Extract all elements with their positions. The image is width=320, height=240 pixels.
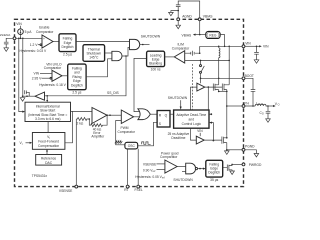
transistor Q-SSdis xyxy=(25,90,30,96)
svg-text:Hysteresis: 0.18 V: Hysteresis: 0.18 V xyxy=(39,83,67,87)
svg-text:OSC: OSC xyxy=(128,144,136,148)
buffer to SS pin (points left) xyxy=(35,92,45,100)
svg-text:+: + xyxy=(43,37,45,41)
external VBIAS bypass cap xyxy=(176,1,200,18)
svg-text:VIN: VIN xyxy=(16,22,22,26)
wire PH node xyxy=(218,91,228,136)
ground SS discharge xyxy=(20,98,25,102)
thermal shutdown box 145C xyxy=(83,45,105,62)
svg-text:145°C: 145°C xyxy=(89,56,99,60)
svg-text:PGND: PGND xyxy=(245,145,255,149)
svg-text:PWRGD: PWRGD xyxy=(249,163,262,167)
svg-text:Deadtime: Deadtime xyxy=(171,136,185,140)
wire control logic to ls driver input xyxy=(191,128,197,140)
power good comparator xyxy=(160,151,179,173)
svg-text:2 kΩ: 2 kΩ xyxy=(77,121,84,125)
wire error amp output xyxy=(106,114,121,116)
svg-text:Blanking: Blanking xyxy=(149,61,162,65)
offset source on ILIM + input xyxy=(185,46,201,55)
svg-text:Comparator: Comparator xyxy=(172,46,190,50)
svg-text:VIN: VIN xyxy=(245,41,251,45)
svg-text:100 ns: 100 ns xyxy=(151,68,161,72)
ground output cap xyxy=(266,119,271,123)
wire FSEL to OSC xyxy=(137,148,140,185)
clock waveform symbol xyxy=(142,142,151,144)
wire ramp to PWM comparator xyxy=(116,121,125,145)
svg-text:Enable: Enable xyxy=(39,26,49,30)
svg-text:VSENSE: VSENSE xyxy=(143,162,157,166)
NAND gate U-PG xyxy=(186,163,198,174)
wire SS/ENA node xyxy=(16,38,42,40)
svg-text:AGND: AGND xyxy=(182,15,192,19)
node VIN uvlo input xyxy=(34,72,53,76)
svg-text:Amplifier: Amplifier xyxy=(91,135,105,139)
label VIN ls driver supply xyxy=(197,129,203,136)
wire SS/ENA down to slow-start input xyxy=(19,38,25,112)
node VSENSE pg input xyxy=(143,162,165,166)
boot rail xyxy=(200,78,242,80)
transistor Q-HS sense xyxy=(222,46,230,91)
svg-text:Deglitch: Deglitch xyxy=(62,45,74,49)
pin PH xyxy=(242,102,249,108)
svg-text:PH: PH xyxy=(244,102,249,106)
wire OSC clock to latch S xyxy=(138,122,157,146)
wire SS_DIS to slow-start box xyxy=(46,95,48,102)
wire thermal to AND gate xyxy=(105,52,112,54)
svg-text:2.5 µs: 2.5 µs xyxy=(63,52,72,56)
node 1.2V reference xyxy=(30,43,42,47)
shutdown gate U-SD xyxy=(130,39,140,49)
dashed wire ILIM to control logic xyxy=(192,64,194,110)
pin BOOT xyxy=(242,74,254,80)
sawtooth ramp symbol xyxy=(115,141,123,144)
svg-text:Adaptive Dead-Time: Adaptive Dead-Time xyxy=(176,113,206,117)
node VI input xyxy=(20,141,33,146)
svg-text:DAC: DAC xyxy=(45,161,53,165)
ILIM comparator (points left) xyxy=(172,43,190,63)
wire shutdown gate output xyxy=(140,44,150,46)
wire slow-start to error amp xyxy=(71,110,93,112)
ground low-side internal xyxy=(225,150,230,155)
resistor 2k VSENSE xyxy=(76,118,89,126)
wire ILIM - input rail2 xyxy=(185,59,230,61)
svg-text:SS/ENA: SS/ENA xyxy=(0,33,11,37)
wire gate node to control logic sense xyxy=(207,87,209,110)
svg-text:BOOT: BOOT xyxy=(245,74,254,78)
svg-text:2.95 V: 2.95 V xyxy=(32,77,42,81)
wire slow-start to feed-forward xyxy=(47,122,49,133)
pin PGND xyxy=(242,145,255,152)
PWM comparator U-PWM xyxy=(118,110,136,134)
REG regulator box xyxy=(206,31,220,38)
svg-text:VSENSE: VSENSE xyxy=(59,189,73,193)
external PGND ground xyxy=(245,150,259,157)
wire control logic to ls gate sense xyxy=(209,122,214,142)
ground VBIAS cap xyxy=(169,11,179,16)
svg-text:VIN: VIN xyxy=(34,72,40,76)
wire deglitch2 to AND gate xyxy=(86,59,112,77)
wire feed-forward to error amp input xyxy=(65,111,73,142)
pin VIN xyxy=(242,41,251,47)
ground input cap xyxy=(254,60,259,64)
current sense element xyxy=(219,46,220,60)
AND gate U-AND xyxy=(112,51,122,60)
ground pwrgd fet xyxy=(230,171,235,175)
svg-text:REG: REG xyxy=(209,34,217,38)
transistor Q-HS main xyxy=(213,60,218,91)
IC boundary dashed box xyxy=(15,19,244,186)
pin PWRGD xyxy=(242,163,262,167)
wire control logic to hs driver input xyxy=(191,87,197,110)
wire latch Q to control logic xyxy=(170,113,174,115)
svg-text:and: and xyxy=(189,118,195,122)
svg-text:FSEL: FSEL xyxy=(135,188,143,192)
svg-text:Deglitch: Deglitch xyxy=(71,84,83,88)
wire hs driver output to gates xyxy=(205,86,223,88)
transistor Q-LS xyxy=(222,135,228,150)
svg-text:Hysteresis: 0.03 V: Hysteresis: 0.03 V xyxy=(20,49,48,53)
falling edge deglitch box 35us xyxy=(206,160,223,182)
pin RT xyxy=(124,185,129,192)
svg-text:VBIAS: VBIAS xyxy=(203,15,214,19)
node 0.90 Vref xyxy=(143,168,165,173)
wire DAC to feed-forward xyxy=(46,149,48,154)
node 2.95V reference xyxy=(32,77,52,81)
external boot capacitor xyxy=(245,78,255,106)
wire REG to VIN rail xyxy=(220,35,225,47)
ground external SS cap xyxy=(4,48,9,52)
wire AND output node xyxy=(122,47,130,57)
OSC box xyxy=(125,142,138,149)
svg-text:Comparator: Comparator xyxy=(44,66,62,70)
wire PWM comp to OR xyxy=(134,116,140,118)
ground AGND internal xyxy=(176,21,181,29)
wire OR to latch R xyxy=(150,113,157,115)
wire external VIN input xyxy=(245,45,269,49)
error amplifier U-EA xyxy=(89,108,108,124)
inductor LOUT xyxy=(245,101,269,106)
svg-text:O: O xyxy=(278,104,280,107)
wire SS/ENA down to discharge xyxy=(22,38,24,96)
wire VSENSE up to 2k xyxy=(75,119,77,185)
svg-text:3.3 ms to 6.6 ms): 3.3 ms to 6.6 ms) xyxy=(35,117,60,121)
svg-text:VIN: VIN xyxy=(197,129,203,133)
svg-text:SHUTDOWN: SHUTDOWN xyxy=(168,96,188,100)
svg-text:Comparator: Comparator xyxy=(36,30,54,34)
external slow-start capacitor xyxy=(4,38,13,48)
wire buffer output to SS node xyxy=(22,95,35,97)
wire PGND node xyxy=(226,149,242,151)
transistor Q-PWRGD open drain xyxy=(223,164,233,171)
label SHUTDOWN pg input xyxy=(173,172,193,183)
falling and rising edge deglitch box 2.5us xyxy=(68,64,86,95)
adaptive dead-time and control logic box xyxy=(174,110,209,128)
current source 5uA from VIN xyxy=(16,22,32,38)
wire REG to VBIAS xyxy=(182,33,206,37)
resistor 40k feedback xyxy=(89,115,107,139)
SR latch xyxy=(157,111,170,128)
svg-text:VIN: VIN xyxy=(263,45,269,49)
wire nand to deglitch3 xyxy=(198,168,206,170)
high-side gate driver xyxy=(197,83,205,91)
svg-text:TPS5431x: TPS5431x xyxy=(32,174,48,178)
wire PH to pin xyxy=(227,105,242,107)
pin VSENSE xyxy=(59,185,78,193)
svg-text:Control Logic: Control Logic xyxy=(182,122,202,126)
OR gate U-OR xyxy=(138,109,150,120)
external output capacitor Co xyxy=(260,106,271,119)
svg-text:Deglitch: Deglitch xyxy=(208,171,220,175)
svg-text:5 µA: 5 µA xyxy=(25,30,33,34)
enable comparator U-EN xyxy=(36,26,54,49)
wire control logic to hs gate sense xyxy=(209,113,212,115)
wire blanking to OR input xyxy=(134,58,147,111)
rail VIN internal xyxy=(200,46,242,48)
feed-forward compensation box xyxy=(32,133,65,150)
external input capacitor xyxy=(254,46,259,60)
wire deglitch1 to shutdown gate xyxy=(76,41,130,43)
label 25ns adaptive deadtime xyxy=(168,132,190,140)
svg-text:RT: RT xyxy=(124,188,128,192)
svg-text:35 µs: 35 µs xyxy=(210,178,218,182)
svg-text:SS_DIS: SS_DIS xyxy=(107,91,120,95)
svg-text:Hysteresis: 0.05 Vref: Hysteresis: 0.05 Vref xyxy=(135,175,165,180)
wire ls driver output to gate xyxy=(204,139,222,141)
VIN UVLO comparator U-UVLO xyxy=(44,63,62,82)
low-side gate driver xyxy=(196,136,204,144)
leading edge blanking box 100ns xyxy=(147,51,165,71)
wire pwrgd to pin xyxy=(232,163,242,165)
svg-text:VBIAS: VBIAS xyxy=(182,33,193,37)
svg-text:Compensation: Compensation xyxy=(38,144,59,148)
svg-text:Q: Q xyxy=(165,113,168,117)
pin FSEL xyxy=(135,185,143,192)
wire pg comp to nand xyxy=(177,166,186,168)
falling edge deglitch box 2.5us xyxy=(59,34,76,57)
svg-text:1.2 V: 1.2 V xyxy=(30,43,38,47)
svg-text:Comparator: Comparator xyxy=(118,130,136,134)
svg-text:SHUTDOWN: SHUTDOWN xyxy=(173,178,193,182)
svg-text:Comparator: Comparator xyxy=(160,155,178,159)
reference DAC box xyxy=(36,155,62,166)
wire RT to OSC xyxy=(127,149,129,185)
wire SS_DIS net xyxy=(45,56,127,96)
svg-text:SHUTDOWN: SHUTDOWN xyxy=(141,34,161,38)
wire ILIM output to blanking xyxy=(165,56,175,58)
internal/external slow-start box xyxy=(25,102,71,121)
pin VBIAS xyxy=(198,15,213,35)
wire uvlo to deglitch2 xyxy=(62,75,68,77)
wire boot rail to driver supply xyxy=(200,78,202,83)
pin SS/ENA xyxy=(0,33,16,40)
wire enable comparator to deglitch xyxy=(53,41,59,43)
wire VO output xyxy=(268,102,280,107)
label SHUTDOWN into logic xyxy=(168,96,188,110)
pin AGND xyxy=(177,11,193,21)
svg-text:2.5 µs: 2.5 µs xyxy=(72,91,81,95)
bootstrap switch xyxy=(200,60,205,79)
